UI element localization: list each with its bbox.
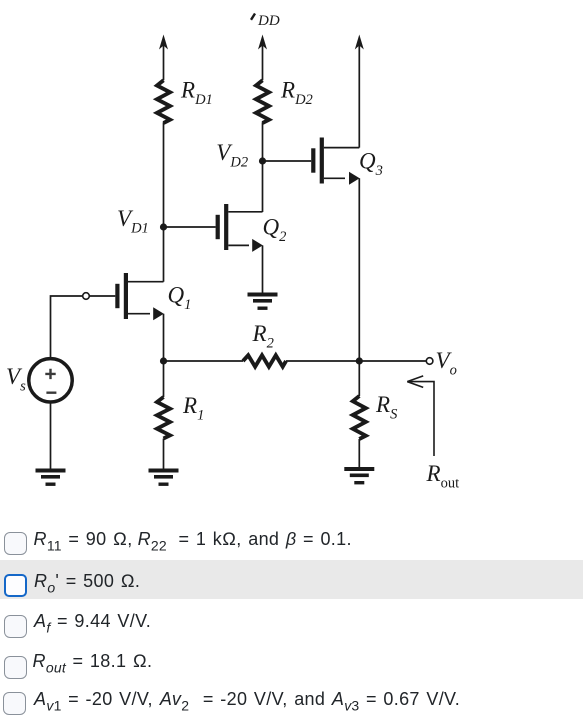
circuit schematic <box>0 0 583 528</box>
checkbox row 1 <box>4 532 27 555</box>
transistor Q1 <box>115 273 164 320</box>
VDD arrow rail3 <box>355 35 364 50</box>
wire Q3 source down to node B <box>358 178 360 361</box>
ground (under Vs) <box>36 469 66 486</box>
svg-text:Vs: Vs <box>6 364 26 395</box>
resistor R2 (horizontal) <box>243 355 286 366</box>
ground (under RS) <box>344 467 374 484</box>
svg-text:RD1: RD1 <box>180 78 213 109</box>
checkbox row 3 <box>4 615 27 638</box>
answer text row 4 <box>33 652 153 670</box>
node A (Q1 source / R1 / R2) <box>160 357 167 364</box>
answer text row 3 <box>34 612 151 630</box>
checkbox row 5 <box>3 692 26 715</box>
svg-text:Q2: Q2 <box>263 215 287 246</box>
wire node B to RS top, RS bottom to ground <box>358 361 360 467</box>
transistor Q3 <box>311 138 359 185</box>
wire rail2 vertical (VDD arrow to Q2 drain) <box>262 40 264 212</box>
node B (Q3 source / RS / R2 / Vo) <box>356 357 363 364</box>
output terminal circle <box>426 358 433 365</box>
svg-text:R2: R2 <box>252 321 274 352</box>
svg-text:VD1: VD1 <box>117 206 149 237</box>
wire input terminal to Vs top <box>51 296 83 359</box>
svg-text:RD2: RD2 <box>280 78 313 109</box>
VDD arrow rail1 <box>159 35 168 50</box>
resistor RD2 <box>256 80 269 123</box>
resistor RD1 <box>157 80 170 123</box>
svg-text:Vo: Vo <box>436 348 457 379</box>
wire Q3 gate to node VD2 <box>263 160 312 162</box>
answer text row 1 <box>34 530 352 548</box>
source Vs <box>29 359 72 402</box>
svg-text:DD: DD <box>257 13 280 29</box>
svg-text:Q3: Q3 <box>359 149 383 180</box>
node VD2 <box>259 157 266 164</box>
wire rail1 vertical (VDD arrow to Q1 drain) <box>163 40 165 282</box>
VDD arrow rail2 <box>258 35 267 50</box>
wire Q1 source down to node A <box>163 314 165 361</box>
ground (under R1) <box>149 469 179 486</box>
wire rail3 vertical (VDD arrow to Q3 drain corner) <box>358 40 360 148</box>
svg-text:Rout: Rout <box>426 461 460 492</box>
resistor R1 <box>157 397 170 439</box>
svg-text:Q1: Q1 <box>168 283 192 314</box>
svg-text:RS: RS <box>375 392 398 423</box>
wire Q2 source down to ground <box>262 245 264 292</box>
wire Q1 gate to input terminal <box>89 295 115 297</box>
svg-text:VD2: VD2 <box>216 140 248 171</box>
Rout indicator arrow <box>409 382 434 456</box>
wire node A to R2 to node B <box>164 360 360 362</box>
answer text row 2 <box>34 572 140 590</box>
wire node B to output terminal <box>359 360 426 362</box>
transistor Q2 <box>216 204 263 252</box>
answer text row 5 <box>34 690 460 708</box>
checkbox row 2 (selected blue) <box>4 574 27 597</box>
answer row 2 highlight band <box>0 560 583 599</box>
VDD label (cropped V) <box>251 14 255 20</box>
wire Vs bottom to ground <box>50 402 52 469</box>
node VD1 <box>160 223 167 230</box>
input terminal circle <box>83 293 90 300</box>
resistor RS <box>353 396 366 439</box>
ground (under Q2 source) <box>248 293 278 310</box>
checkbox row 4 <box>4 656 27 679</box>
svg-text:R1: R1 <box>182 393 204 424</box>
wire node A to R1 top, R1 bottom to ground <box>163 361 165 469</box>
wire Q2 gate to node VD1 <box>164 226 216 228</box>
